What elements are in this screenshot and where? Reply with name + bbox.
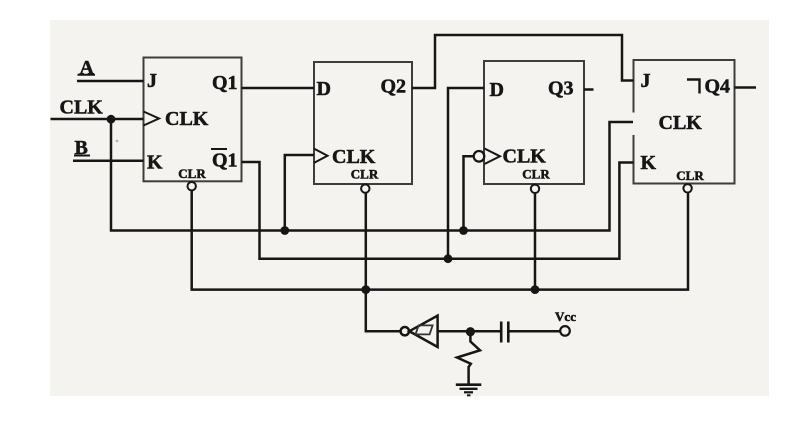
faint speck artifact <box>116 140 119 143</box>
svg-text:Q1: Q1 <box>212 150 238 172</box>
clock wedge of U2 <box>314 149 328 163</box>
resistor R1 (zigzag to ground) <box>457 331 480 383</box>
svg-text:D: D <box>490 79 504 101</box>
overbar of Q1-bar <box>211 148 227 150</box>
node bus3/inverter junction <box>361 285 370 294</box>
node bus1/U2 clock branch <box>280 226 289 235</box>
wire node to capacitor <box>470 330 500 333</box>
inverted clock bubble of U3 <box>474 151 485 162</box>
svg-text:K: K <box>147 152 163 174</box>
wire Q2 over the top to J4 <box>412 35 634 88</box>
flip-flop U3 (D) box <box>484 61 584 184</box>
svg-text:CLK: CLK <box>60 97 104 119</box>
wire U3 CLR riser <box>534 193 537 290</box>
wire CLK net: riser, bus1, up to U4 CLK <box>111 119 633 231</box>
wire branch up to D3 <box>448 88 484 259</box>
wire B to K1 <box>73 159 144 162</box>
flip-flop U4 (JK) box with gap in left edge at CLK <box>634 60 735 184</box>
CLR bubble of U4 <box>683 184 691 192</box>
node bus2/D3 branch <box>444 254 453 263</box>
svg-text:Q4: Q4 <box>705 76 731 98</box>
Vcc terminal circle <box>560 326 570 336</box>
clock wedge of U3 <box>485 149 501 165</box>
wire branch to U3 CLK bubble <box>464 156 474 230</box>
svg-text:CLR: CLR <box>676 168 704 183</box>
svg-text:Q1: Q1 <box>212 72 238 94</box>
svg-text:CLR: CLR <box>522 167 550 182</box>
wire inverter input <box>438 330 471 333</box>
underline of A <box>78 74 96 76</box>
CLR bubble of U2 <box>361 184 369 192</box>
svg-text:D: D <box>317 78 331 100</box>
wire Q1-bar net: down, bus2, up to K4 <box>242 162 634 259</box>
svg-text:CLK: CLK <box>332 146 376 168</box>
node RC junction <box>466 327 475 336</box>
not-sign before Q4 <box>687 80 700 94</box>
wire CLK input <box>51 118 144 121</box>
svg-text:CLR: CLR <box>178 166 206 181</box>
wire Q1 to D2 <box>242 87 315 90</box>
svg-text:Q2: Q2 <box>381 75 407 97</box>
svg-text:Vcc: Vcc <box>555 309 576 324</box>
inverter U5 output bubble <box>401 327 409 335</box>
flip-flop U1 (JK) box <box>144 58 242 182</box>
clock wedge of U1 <box>144 112 160 126</box>
node bus3/U3 CLR junction <box>531 285 540 294</box>
wire CLR net: U1 bubble down, bus3, up to U4 bubble <box>192 190 688 289</box>
ground symbol <box>456 385 482 396</box>
wire capacitor to Vcc <box>510 330 561 333</box>
node bus1/U3 clock branch <box>459 226 468 235</box>
scanned canvas background <box>50 20 769 396</box>
CLR bubble of U1 <box>188 182 196 190</box>
svg-text:K: K <box>641 152 657 174</box>
wire Q4 stub <box>735 86 757 89</box>
svg-text:CLR: CLR <box>351 167 379 182</box>
hysteresis symbol inside U5 <box>416 325 433 334</box>
flip-flop U2 (D) box <box>314 62 412 184</box>
capacitor C1 plates <box>500 322 503 343</box>
svg-text:J: J <box>641 70 651 92</box>
node CLK junction <box>107 115 116 124</box>
underline of B <box>74 155 90 157</box>
CLR bubble of U3 <box>531 185 539 193</box>
wire Q3 stub <box>584 88 594 91</box>
svg-text:CLK: CLK <box>503 146 547 168</box>
wire U2 CLR bubble down to inverter output <box>366 193 401 332</box>
wire A to J1 <box>77 80 144 83</box>
svg-text:Q3: Q3 <box>548 78 574 100</box>
svg-text:CLK: CLK <box>659 112 703 134</box>
inverter U5 triangle <box>409 316 437 347</box>
wire branch to U2 CLK <box>285 155 314 231</box>
svg-text:CLK: CLK <box>165 108 209 130</box>
svg-text:J: J <box>147 70 157 92</box>
